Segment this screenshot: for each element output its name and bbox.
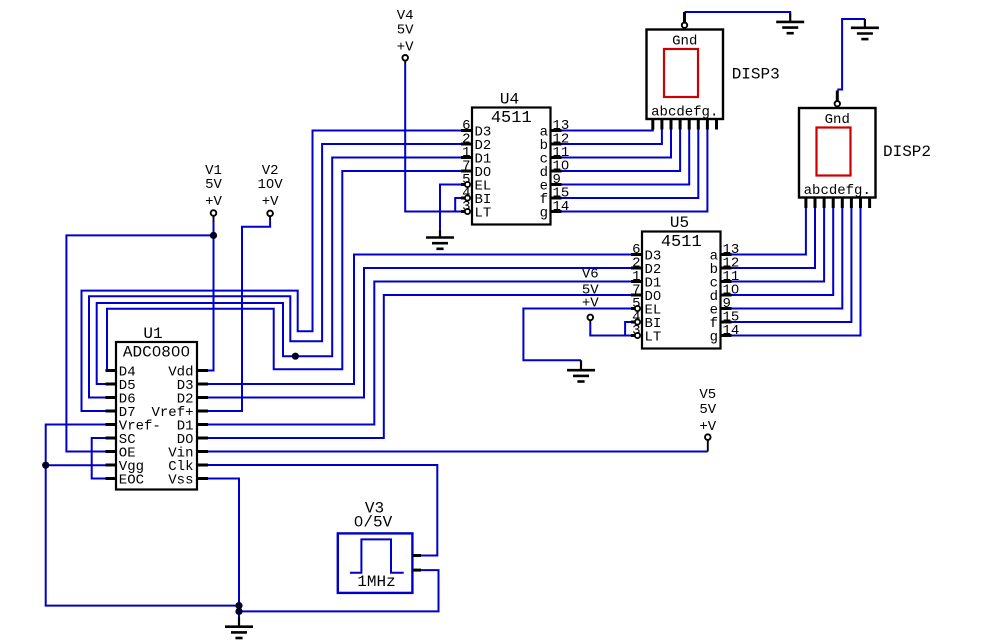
wire DISP3 Gnd pin to ground bbox=[685, 12, 791, 15]
wire ADC D2 to U5 D2 bbox=[208, 268, 631, 398]
wire V6 to U5 LT bbox=[590, 324, 631, 336]
wire ADC D3 to U5 D3 bbox=[208, 255, 631, 385]
wire U5 pin 11 to DISP2 segment c bbox=[732, 207, 825, 282]
wire ADC D4 to U4 D0 (net W4) bbox=[106, 171, 461, 371]
display DISP3 seven-segment bbox=[647, 12, 724, 130]
wire V1 to Vdd bbox=[208, 222, 214, 371]
wire ground rail to V3 lower pin bbox=[239, 570, 439, 611]
svg-text:5V: 5V bbox=[397, 23, 414, 39]
svg-text:3: 3 bbox=[632, 323, 640, 339]
junction Vref-/Vgg node bbox=[42, 462, 49, 469]
svg-text:5V: 5V bbox=[205, 177, 222, 193]
wire V2 to Vref+ bbox=[208, 221, 270, 411]
display DISP2 seven-segment bbox=[799, 91, 876, 209]
wire U4 pin 14 to DISP3 segment g bbox=[562, 130, 708, 212]
svg-text:Gnd: Gnd bbox=[825, 112, 850, 128]
ground below V6 (U5 EL) bbox=[567, 360, 595, 381]
svg-text:U4: U4 bbox=[500, 91, 519, 109]
svg-text:4511: 4511 bbox=[661, 233, 702, 252]
svg-text:U1: U1 bbox=[143, 325, 162, 343]
svg-text:4511: 4511 bbox=[491, 109, 532, 128]
wire Clk to V3 upper pin bbox=[208, 465, 437, 556]
voltage source V5 5V terminal bbox=[699, 387, 716, 452]
wire SC to EOC feedback bbox=[92, 438, 106, 479]
svg-text:U5: U5 bbox=[670, 214, 689, 232]
svg-text:Vss: Vss bbox=[168, 473, 193, 489]
wire U4 EL to ground bbox=[440, 185, 461, 230]
svg-text:+V: +V bbox=[699, 419, 716, 435]
voltage source V6 5V terminal bbox=[582, 267, 599, 325]
svg-text:abcdefg.: abcdefg. bbox=[804, 183, 871, 199]
wire ADC D6 to U4 D2 (net W2) bbox=[89, 144, 461, 398]
svg-text:14: 14 bbox=[553, 199, 570, 215]
svg-text:5V: 5V bbox=[699, 402, 716, 418]
junction on net W3 bbox=[292, 353, 299, 360]
svg-text:10V: 10V bbox=[257, 177, 283, 193]
wire U5 pin 15 to DISP2 segment f bbox=[732, 207, 852, 323]
svg-text:LT: LT bbox=[645, 330, 662, 346]
wire U4 pin 9 to DISP3 segment e bbox=[562, 130, 690, 185]
wire U5 pin 14 to DISP2 segment g bbox=[732, 207, 861, 336]
voltage source V2 10V terminal bbox=[257, 163, 283, 221]
op-amp U1 ADC0800 converter bbox=[106, 342, 209, 490]
junction ground rail right bbox=[235, 608, 242, 615]
wire V4 to U4 LT and BI bbox=[405, 65, 461, 212]
ground near DISP2 bbox=[851, 19, 879, 39]
wire U4 BI to LT net bbox=[455, 198, 461, 212]
wire Vin to V5 bbox=[208, 451, 708, 453]
wire V6 to U5 BI bbox=[625, 322, 631, 336]
pulse source V3 0/5V 1MHz bbox=[338, 500, 421, 593]
zero glyph dot covers bbox=[155, 163, 737, 523]
voltage source V4 5V terminal bbox=[397, 8, 414, 65]
wire ADC D1 to U5 D1 bbox=[208, 282, 631, 425]
wire U5 pin 13 to DISP2 segment a bbox=[732, 207, 806, 255]
svg-text:1MHz: 1MHz bbox=[357, 573, 395, 591]
junction V1/OE/Vdd node bbox=[210, 232, 217, 239]
wire DISP2 Gnd pin to ground bbox=[837, 19, 865, 90]
wire U5 pin 9 to DISP2 segment e bbox=[732, 207, 843, 309]
svg-text:V6: V6 bbox=[582, 267, 599, 283]
svg-text:+V: +V bbox=[205, 194, 222, 210]
svg-text:g: g bbox=[710, 330, 718, 346]
ground near DISP3 bbox=[776, 14, 804, 34]
wire U4 pin 12 to DISP3 segment b bbox=[562, 130, 662, 145]
svg-text:LT: LT bbox=[475, 206, 492, 222]
wire U4 pin 15 to DISP3 segment f bbox=[562, 130, 699, 199]
chip U5 4511 decoder bbox=[631, 232, 739, 349]
svg-text:V5: V5 bbox=[699, 387, 716, 403]
wire ADC D0 to U5 D0 bbox=[208, 295, 631, 438]
wire U4 pin 11 to DISP3 segment c bbox=[562, 130, 672, 158]
chip U4 4511 decoder bbox=[461, 108, 569, 225]
svg-text:3: 3 bbox=[462, 199, 470, 215]
wire U5 pin 12 to DISP2 segment b bbox=[732, 207, 816, 269]
voltage source V1 5V terminal bbox=[205, 163, 222, 222]
svg-text:Gnd: Gnd bbox=[672, 34, 697, 50]
wire U4 pin 13 to DISP3 segment a bbox=[562, 130, 653, 131]
wire U5 EL to ground bbox=[523, 309, 631, 361]
svg-text:g: g bbox=[540, 206, 548, 222]
ground below U4 (EL) bbox=[426, 230, 454, 249]
svg-text:DISP2: DISP2 bbox=[883, 143, 931, 161]
wire ADC D7 to U4 D3 (net W1) bbox=[82, 131, 462, 412]
svg-text:DISP3: DISP3 bbox=[732, 66, 780, 84]
wire V1 to OE bbox=[66, 235, 213, 451]
ground bottom center bbox=[225, 617, 253, 638]
svg-text:14: 14 bbox=[723, 323, 740, 339]
wire Vgg branch bbox=[46, 464, 106, 466]
svg-text:+V: +V bbox=[582, 296, 599, 312]
junction ground rail left bbox=[235, 602, 242, 609]
svg-text:+V: +V bbox=[397, 40, 414, 56]
svg-text:abcdefg.: abcdefg. bbox=[651, 105, 718, 121]
svg-text:EOC: EOC bbox=[119, 473, 144, 489]
wire U5 pin 10 to DISP2 segment d bbox=[732, 207, 834, 296]
svg-text:+V: +V bbox=[262, 194, 279, 210]
wire Vref- Vgg to ground rail bbox=[46, 425, 239, 606]
wire Vss to ground bbox=[208, 479, 239, 619]
wire U4 pin 10 to DISP3 segment d bbox=[562, 130, 681, 172]
wire ADC D5 to U4 D1 (net W3) bbox=[97, 158, 461, 385]
